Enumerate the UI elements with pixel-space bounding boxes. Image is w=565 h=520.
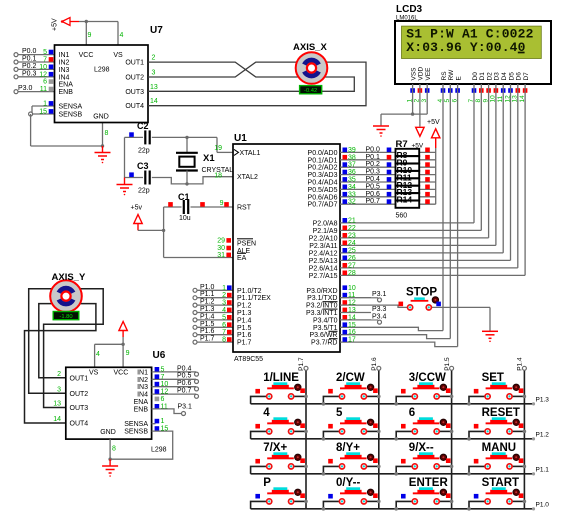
svg-text:VCC: VCC (79, 52, 94, 59)
svg-text:OUT1: OUT1 (125, 60, 144, 67)
svg-text:OUT4: OUT4 (125, 103, 144, 110)
svg-text:38: 38 (348, 154, 356, 161)
svg-text:21: 21 (348, 217, 356, 224)
svg-text:P1.5: P1.5 (200, 321, 215, 328)
svg-text:1: 1 (161, 418, 165, 425)
svg-text:P1.4: P1.4 (237, 317, 252, 324)
svg-text:P2.6/A14: P2.6/A14 (309, 265, 338, 272)
svg-text:P2.2/A10: P2.2/A10 (309, 235, 338, 242)
svg-text:26: 26 (348, 255, 356, 262)
svg-text:P1.4: P1.4 (517, 357, 524, 371)
svg-text:P1.1/T2EX: P1.1/T2EX (237, 295, 271, 302)
svg-text:29: 29 (217, 238, 225, 245)
svg-text:XTAL1: XTAL1 (240, 150, 261, 157)
svg-text:ENA: ENA (59, 82, 74, 89)
svg-text:P3.0: P3.0 (18, 85, 33, 92)
svg-text:10: 10 (348, 285, 356, 292)
svg-text:5: 5 (43, 49, 47, 56)
svg-text:4: 4 (96, 351, 100, 358)
svg-text:10: 10 (39, 64, 47, 71)
svg-text:2/CW: 2/CW (336, 372, 365, 384)
svg-text:RS: RS (441, 71, 448, 81)
svg-text:22p: 22p (138, 188, 150, 195)
svg-text:P1.3: P1.3 (237, 310, 252, 317)
svg-text:P1.7: P1.7 (298, 357, 305, 371)
svg-text:8: 8 (222, 337, 226, 344)
svg-text:+5V: +5V (412, 143, 424, 150)
svg-text:27: 27 (348, 262, 356, 269)
svg-text:P0.3: P0.3 (22, 70, 37, 77)
svg-text:SENSB: SENSB (59, 112, 83, 119)
svg-text:P3.4: P3.4 (372, 313, 387, 320)
svg-text:U7: U7 (150, 25, 163, 36)
svg-text:39: 39 (348, 147, 356, 154)
svg-text:SENSA: SENSA (59, 104, 83, 111)
svg-text:OUT4: OUT4 (70, 421, 89, 428)
svg-text:31: 31 (217, 252, 225, 259)
svg-text:3: 3 (57, 386, 61, 393)
svg-text:SENSB: SENSB (124, 429, 148, 436)
svg-text:17: 17 (348, 337, 356, 344)
svg-text:P2.3/A11: P2.3/A11 (309, 243, 337, 250)
svg-text:9: 9 (88, 32, 92, 39)
svg-text:13: 13 (150, 84, 158, 91)
svg-text:P3.7/RD: P3.7/RD (311, 340, 337, 347)
svg-text:D4: D4 (501, 72, 508, 81)
svg-text:19: 19 (214, 145, 222, 152)
svg-text:IN2: IN2 (137, 377, 148, 384)
svg-text:START: START (482, 477, 519, 489)
svg-text:XTAL2: XTAL2 (237, 174, 258, 181)
svg-text:C3: C3 (137, 161, 149, 171)
svg-text:X:03.96 Y:00.40: X:03.96 Y:00.40 (406, 40, 525, 55)
svg-text:18: 18 (214, 173, 222, 180)
svg-text:P1.0: P1.0 (536, 501, 550, 508)
svg-text:P3.6/WR: P3.6/WR (309, 332, 337, 339)
svg-text:P3.1: P3.1 (178, 404, 193, 411)
svg-text:14: 14 (53, 416, 61, 423)
svg-text:IN1: IN1 (59, 52, 70, 59)
svg-text:P3.2/INT0: P3.2/INT0 (306, 303, 338, 310)
svg-text:5: 5 (222, 314, 226, 321)
svg-text:VSS: VSS (410, 67, 417, 81)
svg-text:EA: EA (237, 255, 247, 262)
svg-text:P0.5/AD5: P0.5/AD5 (308, 187, 338, 194)
svg-text:L298: L298 (94, 67, 110, 74)
svg-text:IN4: IN4 (137, 392, 148, 399)
svg-text:P1.1: P1.1 (536, 466, 550, 473)
svg-text:R7: R7 (396, 139, 408, 150)
svg-text:P0.7: P0.7 (366, 198, 381, 205)
svg-text:P0.1/AD1: P0.1/AD1 (308, 157, 338, 164)
svg-text:0/Y--: 0/Y-- (336, 477, 360, 489)
svg-text:12: 12 (39, 71, 47, 78)
svg-text:ENB: ENB (134, 406, 149, 413)
svg-text:+5v: +5v (131, 205, 143, 212)
svg-text:VS: VS (113, 52, 123, 59)
svg-text:MANU: MANU (482, 442, 516, 454)
svg-text:OUT2: OUT2 (70, 391, 89, 398)
svg-text:15: 15 (348, 322, 356, 329)
svg-text:P3.0/RXD: P3.0/RXD (306, 288, 337, 295)
svg-text:9: 9 (220, 200, 224, 207)
svg-text:C2: C2 (137, 121, 149, 131)
svg-text:-1.80: -1.80 (59, 314, 72, 320)
svg-text:8: 8 (105, 130, 109, 137)
svg-text:34: 34 (348, 184, 356, 191)
svg-text:P0.6: P0.6 (177, 380, 192, 387)
svg-text:P1.3: P1.3 (536, 396, 550, 403)
svg-text:12: 12 (161, 389, 169, 396)
svg-text:7/X+: 7/X+ (263, 442, 287, 454)
svg-text:P0.0/AD0: P0.0/AD0 (308, 150, 338, 157)
svg-text:P1.7: P1.7 (237, 340, 252, 347)
svg-text:P0.2: P0.2 (22, 63, 37, 70)
svg-text:P0.4: P0.4 (366, 176, 381, 183)
svg-text:11: 11 (40, 86, 47, 93)
svg-text:7: 7 (222, 329, 226, 336)
svg-text:35: 35 (348, 177, 356, 184)
svg-text:3/CCW: 3/CCW (409, 372, 446, 384)
svg-text:P3.4/T0: P3.4/T0 (313, 317, 338, 324)
svg-text:P1.2: P1.2 (237, 303, 252, 310)
svg-text:P0.4/AD4: P0.4/AD4 (308, 180, 338, 187)
svg-text:VCC: VCC (114, 370, 129, 377)
svg-text:D6: D6 (516, 72, 523, 81)
svg-text:9: 9 (126, 350, 130, 357)
svg-text:P: P (263, 477, 271, 489)
svg-text:P1.7: P1.7 (200, 336, 215, 343)
svg-text:2: 2 (57, 371, 61, 378)
svg-text:10: 10 (161, 381, 169, 388)
svg-text:IN2: IN2 (59, 60, 70, 67)
svg-text:X1: X1 (203, 153, 215, 164)
svg-text:1/LINE: 1/LINE (263, 372, 299, 384)
svg-text:P1.2: P1.2 (536, 431, 550, 438)
svg-text:P1.1: P1.1 (200, 291, 215, 298)
svg-text:OUT3: OUT3 (70, 405, 89, 412)
svg-text:IN3: IN3 (59, 67, 70, 74)
svg-text:P0.1: P0.1 (22, 56, 37, 63)
svg-text:STOP: STOP (406, 287, 437, 299)
svg-text:P0.7: P0.7 (177, 388, 192, 395)
svg-text:SENSA: SENSA (124, 421, 148, 428)
svg-text:D1: D1 (479, 72, 486, 81)
svg-text:560: 560 (396, 213, 408, 220)
svg-text:VEE: VEE (425, 67, 432, 81)
svg-text:P2.7/A15: P2.7/A15 (309, 273, 338, 280)
svg-text:16: 16 (348, 329, 356, 336)
svg-text:32: 32 (348, 199, 356, 206)
svg-text:P3.5/T1: P3.5/T1 (313, 325, 338, 332)
svg-text:GND: GND (100, 429, 116, 436)
svg-text:P0.0: P0.0 (22, 48, 37, 55)
svg-text:P0.4: P0.4 (177, 365, 192, 372)
svg-text:D5: D5 (508, 72, 515, 81)
svg-text:D0: D0 (472, 72, 479, 81)
svg-text:P0.5: P0.5 (177, 373, 192, 380)
svg-text:IN4: IN4 (59, 74, 70, 81)
svg-text:ENB: ENB (59, 89, 74, 96)
svg-text:22p: 22p (138, 148, 150, 155)
svg-text:P0.6/AD6: P0.6/AD6 (308, 194, 338, 201)
svg-text:RESET: RESET (482, 407, 520, 419)
svg-text:P2.0/A8: P2.0/A8 (313, 220, 338, 227)
svg-text:3: 3 (222, 300, 226, 307)
svg-text:D3: D3 (494, 72, 501, 81)
svg-text:P1.3: P1.3 (200, 306, 215, 313)
svg-text:VS: VS (89, 370, 99, 377)
svg-text:P3.3/INT1: P3.3/INT1 (306, 310, 338, 317)
svg-text:P0.3/AD3: P0.3/AD3 (308, 172, 338, 179)
svg-text:4: 4 (263, 407, 270, 419)
svg-text:8: 8 (112, 446, 116, 453)
svg-text:P0.0: P0.0 (366, 146, 381, 153)
svg-text:6: 6 (161, 396, 165, 403)
svg-text:P0.6: P0.6 (366, 191, 381, 198)
svg-text:10u: 10u (179, 215, 191, 222)
svg-text:P1.0: P1.0 (200, 284, 215, 291)
svg-text:P1.0/T2: P1.0/T2 (237, 288, 262, 295)
svg-text:7: 7 (43, 57, 47, 64)
svg-text:2: 2 (222, 292, 226, 299)
svg-text:13: 13 (53, 401, 61, 408)
svg-text:P1.6: P1.6 (237, 332, 252, 339)
svg-text:E: E (455, 76, 462, 81)
svg-text:L298: L298 (151, 447, 167, 454)
svg-text:P0.7/AD7: P0.7/AD7 (308, 202, 338, 209)
svg-text:P1.4: P1.4 (200, 313, 215, 320)
svg-text:1: 1 (222, 285, 226, 292)
svg-text:ENA: ENA (134, 399, 149, 406)
svg-text:3: 3 (152, 70, 156, 77)
svg-text:2: 2 (152, 55, 156, 62)
svg-text:P0.2/AD2: P0.2/AD2 (308, 165, 338, 172)
svg-text:15: 15 (39, 109, 47, 116)
svg-text:P2.5/A13: P2.5/A13 (309, 258, 338, 265)
svg-text:IN3: IN3 (137, 384, 148, 391)
svg-text:4: 4 (120, 32, 124, 39)
svg-text:25: 25 (348, 247, 356, 254)
svg-text:OUT1: OUT1 (70, 375, 89, 382)
svg-text:22: 22 (348, 225, 356, 232)
svg-text:SET: SET (482, 372, 504, 384)
svg-text:+5V: +5V (427, 119, 440, 126)
svg-text:4: 4 (222, 307, 226, 314)
svg-text:6: 6 (43, 79, 47, 86)
svg-text:5: 5 (336, 407, 343, 419)
svg-text:P0.3: P0.3 (366, 169, 381, 176)
svg-text:P0.2: P0.2 (366, 161, 381, 168)
svg-text:33: 33 (348, 191, 356, 198)
svg-text:P0.5: P0.5 (366, 183, 381, 190)
svg-text:28: 28 (348, 270, 356, 277)
svg-text:GND: GND (93, 114, 109, 121)
svg-text:+5V: +5V (52, 18, 59, 31)
svg-text:OUT2: OUT2 (125, 75, 144, 82)
svg-text:P1.5: P1.5 (237, 325, 252, 332)
svg-text:P0.1: P0.1 (366, 154, 381, 161)
svg-text:-0.42: -0.42 (304, 88, 317, 94)
svg-text:U1: U1 (234, 133, 247, 144)
svg-text:AXIS_X: AXIS_X (293, 42, 327, 53)
svg-text:7: 7 (161, 374, 165, 381)
svg-text:D2: D2 (486, 72, 493, 81)
svg-text:LCD3: LCD3 (396, 4, 423, 15)
svg-text:P1.6: P1.6 (200, 328, 215, 335)
svg-text:6: 6 (222, 322, 226, 329)
svg-text:6: 6 (409, 407, 415, 419)
svg-text:8/Y+: 8/Y+ (336, 442, 360, 454)
svg-text:P1.2: P1.2 (200, 299, 215, 306)
svg-text:R14: R14 (397, 195, 413, 205)
svg-text:36: 36 (348, 169, 356, 176)
svg-text:U6: U6 (153, 350, 166, 361)
svg-text:D7: D7 (523, 72, 530, 81)
svg-text:P3.1: P3.1 (372, 291, 387, 298)
svg-text:RST: RST (237, 205, 252, 212)
svg-text:IN1: IN1 (137, 369, 148, 376)
svg-text:AT89C55: AT89C55 (234, 356, 263, 363)
svg-text:23: 23 (348, 232, 356, 239)
svg-text:P2.1/A9: P2.1/A9 (313, 228, 338, 235)
svg-text:9/X--: 9/X-- (409, 442, 434, 454)
svg-text:ENTER: ENTER (409, 477, 449, 489)
svg-text:1: 1 (43, 101, 47, 108)
svg-text:5: 5 (161, 366, 165, 373)
svg-text:P1.6: P1.6 (371, 357, 378, 371)
svg-text:VDD: VDD (418, 66, 425, 80)
svg-text:P2.4/A12: P2.4/A12 (309, 250, 338, 257)
svg-text:RW: RW (448, 69, 455, 81)
svg-text:AXIS_Y: AXIS_Y (52, 272, 86, 283)
svg-text:OUT3: OUT3 (125, 89, 144, 96)
svg-text:14: 14 (150, 98, 158, 105)
svg-text:P3.1/TXD: P3.1/TXD (307, 295, 337, 302)
svg-text:24: 24 (348, 240, 356, 247)
svg-text:PSEN: PSEN (237, 241, 256, 248)
svg-text:P1.5: P1.5 (444, 357, 451, 371)
svg-text:37: 37 (348, 162, 356, 169)
